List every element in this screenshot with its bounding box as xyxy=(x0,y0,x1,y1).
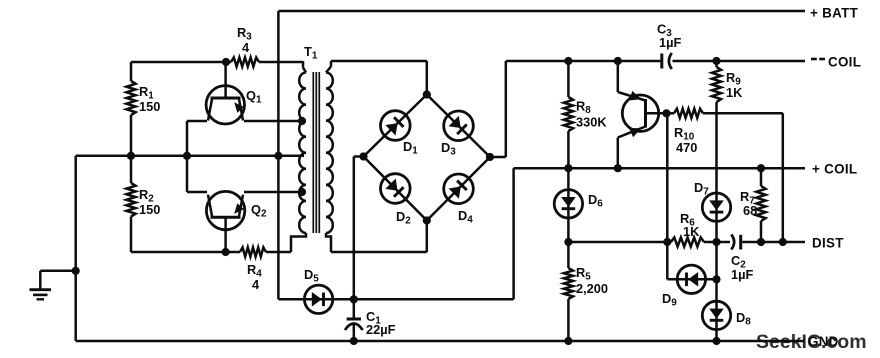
wire ground horizontal xyxy=(76,155,304,158)
svg-text:22µF: 22µF xyxy=(366,322,396,337)
wire C1 node up to +COIL row xyxy=(512,168,515,299)
label GND xyxy=(808,334,839,349)
resistor R7 xyxy=(740,186,766,221)
resistor R2 xyxy=(126,183,160,217)
svg-text:1K: 1K xyxy=(726,85,743,100)
diode D4 xyxy=(438,168,480,226)
node D9 right junction xyxy=(712,275,720,283)
node C1 bottom on rail xyxy=(350,337,358,345)
svg-text:D3: D3 xyxy=(441,140,456,157)
node R8 column at +COIL xyxy=(564,164,572,172)
node C1 top xyxy=(350,295,358,303)
node R1-R2 midpoint xyxy=(127,152,135,160)
svg-text:D2: D2 xyxy=(396,209,411,226)
wire bridge left to C1 node xyxy=(354,157,364,300)
wire D6 to R5 xyxy=(567,242,570,268)
svg-text:150: 150 xyxy=(139,99,160,114)
node R10 drop at DIST xyxy=(779,238,787,246)
wire R10 to right drop xyxy=(703,113,783,242)
label DIST xyxy=(812,236,844,251)
wire bridge diagonal bottom-left xyxy=(364,157,427,221)
diode D2 xyxy=(374,168,416,227)
resistor R10 xyxy=(667,109,704,155)
diode D3 xyxy=(438,105,480,158)
resistor R8 xyxy=(564,97,608,131)
resistor R9 xyxy=(712,67,743,102)
wire secondary top to bridge xyxy=(331,61,427,95)
wire bottom rail xyxy=(76,340,805,343)
wire bridge diagonal bottom-right xyxy=(427,157,490,221)
wire collector coupling vertical xyxy=(186,121,189,192)
wire Q1 emitter to transformer tap xyxy=(244,120,304,123)
transistor Q1 xyxy=(206,62,262,124)
wire -COIL rail right of C3 xyxy=(673,60,806,63)
wire Q2 collector left xyxy=(187,191,207,194)
node D6 bottom at DIST row xyxy=(564,238,572,246)
svg-text:D4: D4 xyxy=(458,208,473,225)
resistor R3 xyxy=(231,25,259,67)
svg-text:470: 470 xyxy=(676,140,697,155)
transistor Q3 xyxy=(618,91,667,138)
diode D7 xyxy=(694,180,731,221)
node R9 top xyxy=(712,57,720,65)
wire R8 top lead xyxy=(567,61,570,97)
transformer T1 core xyxy=(313,72,319,233)
wire bridge right output xyxy=(490,61,506,157)
capacitor C1 xyxy=(345,299,396,341)
svg-text:T1: T1 xyxy=(304,44,318,61)
capacitor C3 xyxy=(657,22,681,70)
wire C2 right xyxy=(742,241,805,244)
wire R4 row left segment xyxy=(131,251,240,254)
svg-text:Q2: Q2 xyxy=(251,202,267,219)
node Q2 emitter tap on winding xyxy=(298,188,306,196)
node R7 top at +COIL xyxy=(757,164,765,172)
svg-text:1µF: 1µF xyxy=(731,267,753,282)
node bridge left xyxy=(359,152,367,160)
svg-text:COIL: COIL xyxy=(828,55,861,70)
diode D9 xyxy=(662,265,717,308)
label -COIL xyxy=(811,55,861,70)
svg-text:R5: R5 xyxy=(576,265,591,282)
node bridge right xyxy=(486,153,494,161)
wire R2 bottom to R4 wire xyxy=(130,217,133,253)
svg-text:4: 4 xyxy=(252,277,260,292)
diode D8 xyxy=(702,301,751,329)
svg-text:68: 68 xyxy=(743,203,757,218)
node driver collector top xyxy=(614,57,622,65)
wire R3 right to transformer primary top xyxy=(259,61,303,64)
wire +BATT bus vertical xyxy=(277,11,280,299)
wire ground left vertical xyxy=(74,156,77,341)
svg-text:R8: R8 xyxy=(576,99,591,116)
svg-text:DIST: DIST xyxy=(812,236,844,251)
svg-text:1K: 1K xyxy=(683,224,700,239)
wire R5 bottom xyxy=(567,299,570,341)
wire R8 to D6 xyxy=(567,131,570,242)
wire R7 bottom lead xyxy=(760,221,763,242)
ground xyxy=(30,271,76,300)
node driver emitter at +COIL xyxy=(614,164,622,172)
node driver base xyxy=(662,109,670,117)
transformer T1 secondary winding xyxy=(326,61,333,252)
node R8 top xyxy=(564,57,572,65)
wire DIST row left xyxy=(568,241,671,244)
wire +COIL rail xyxy=(514,167,805,170)
svg-text:+ COIL: + COIL xyxy=(812,162,857,177)
resistor R4 xyxy=(240,247,266,292)
svg-text:D6: D6 xyxy=(588,192,603,209)
wire R4 right to primary bottom xyxy=(266,251,291,254)
diode D1 xyxy=(374,105,418,157)
wire R9 top lead xyxy=(715,61,718,67)
svg-text:4: 4 xyxy=(242,40,250,55)
wire driver emitter vertical xyxy=(617,138,620,169)
wire +BATT rail xyxy=(278,10,805,13)
node Q2 base junction xyxy=(222,248,230,256)
wire bridge diagonal top-right xyxy=(427,95,490,158)
svg-text:+ BATT: + BATT xyxy=(810,6,859,21)
node C2 right junction xyxy=(757,238,765,246)
label +COIL xyxy=(812,162,857,177)
wire base node down to DIST row xyxy=(666,113,669,279)
wire driver collector vertical xyxy=(617,61,620,92)
node bus to center tap xyxy=(274,152,282,160)
transformer T1 primary winding xyxy=(291,44,318,252)
resistor R5 xyxy=(564,265,608,299)
transistor Q2 xyxy=(206,191,267,252)
svg-text:150: 150 xyxy=(139,202,160,217)
resistor R6 xyxy=(671,211,704,247)
node bridge top xyxy=(423,90,431,98)
svg-text:2,200: 2,200 xyxy=(576,281,608,296)
wire R7 top lead xyxy=(760,168,763,186)
wire R6 to C2 xyxy=(704,241,730,244)
resistor R1 xyxy=(126,81,160,115)
node ground stub junction xyxy=(72,267,80,275)
node Q1 base junction xyxy=(222,58,230,66)
svg-text:D8: D8 xyxy=(736,310,751,327)
svg-text:D5: D5 xyxy=(304,267,319,284)
node Q1 emitter tap on winding xyxy=(298,117,306,125)
node bridge bottom xyxy=(423,216,431,224)
svg-text:330K: 330K xyxy=(576,115,607,130)
wire bridge diagonal top-left xyxy=(364,95,427,157)
node D8 bottom on rail xyxy=(712,337,720,345)
capacitor C2 xyxy=(731,235,753,283)
watermark xyxy=(756,331,867,353)
wire bridge bottom to secondary bottom xyxy=(331,221,427,253)
label +BATT xyxy=(810,6,859,21)
node R6 left junction xyxy=(663,238,671,246)
node coupling to ground wire xyxy=(183,152,191,160)
wire Q2 emitter to transformer tap xyxy=(244,191,304,194)
svg-text:1µF: 1µF xyxy=(659,35,681,50)
svg-text:D9: D9 xyxy=(662,291,677,308)
svg-text:D7: D7 xyxy=(694,180,709,197)
node R5 bottom on rail xyxy=(564,337,572,345)
node D7 bottom at DIST xyxy=(712,238,720,246)
wire R1R2 branch vertical top xyxy=(130,62,133,81)
svg-text:D1: D1 xyxy=(403,139,418,156)
diode D6 xyxy=(554,190,603,218)
wire top-left horizontal to R3 xyxy=(131,61,231,64)
wire -COIL rail left of C3 xyxy=(506,60,661,63)
wire R1 to R2 xyxy=(130,115,133,183)
diode D5 xyxy=(304,267,333,313)
wire R9 to D7 xyxy=(715,102,718,242)
wire D7 column to D8 xyxy=(715,242,718,341)
wire D5 row xyxy=(278,298,513,301)
svg-text:Q1: Q1 xyxy=(246,88,262,105)
svg-text:SeekIC.com: SeekIC.com xyxy=(756,331,867,353)
wire Q1 collector left xyxy=(187,120,207,123)
